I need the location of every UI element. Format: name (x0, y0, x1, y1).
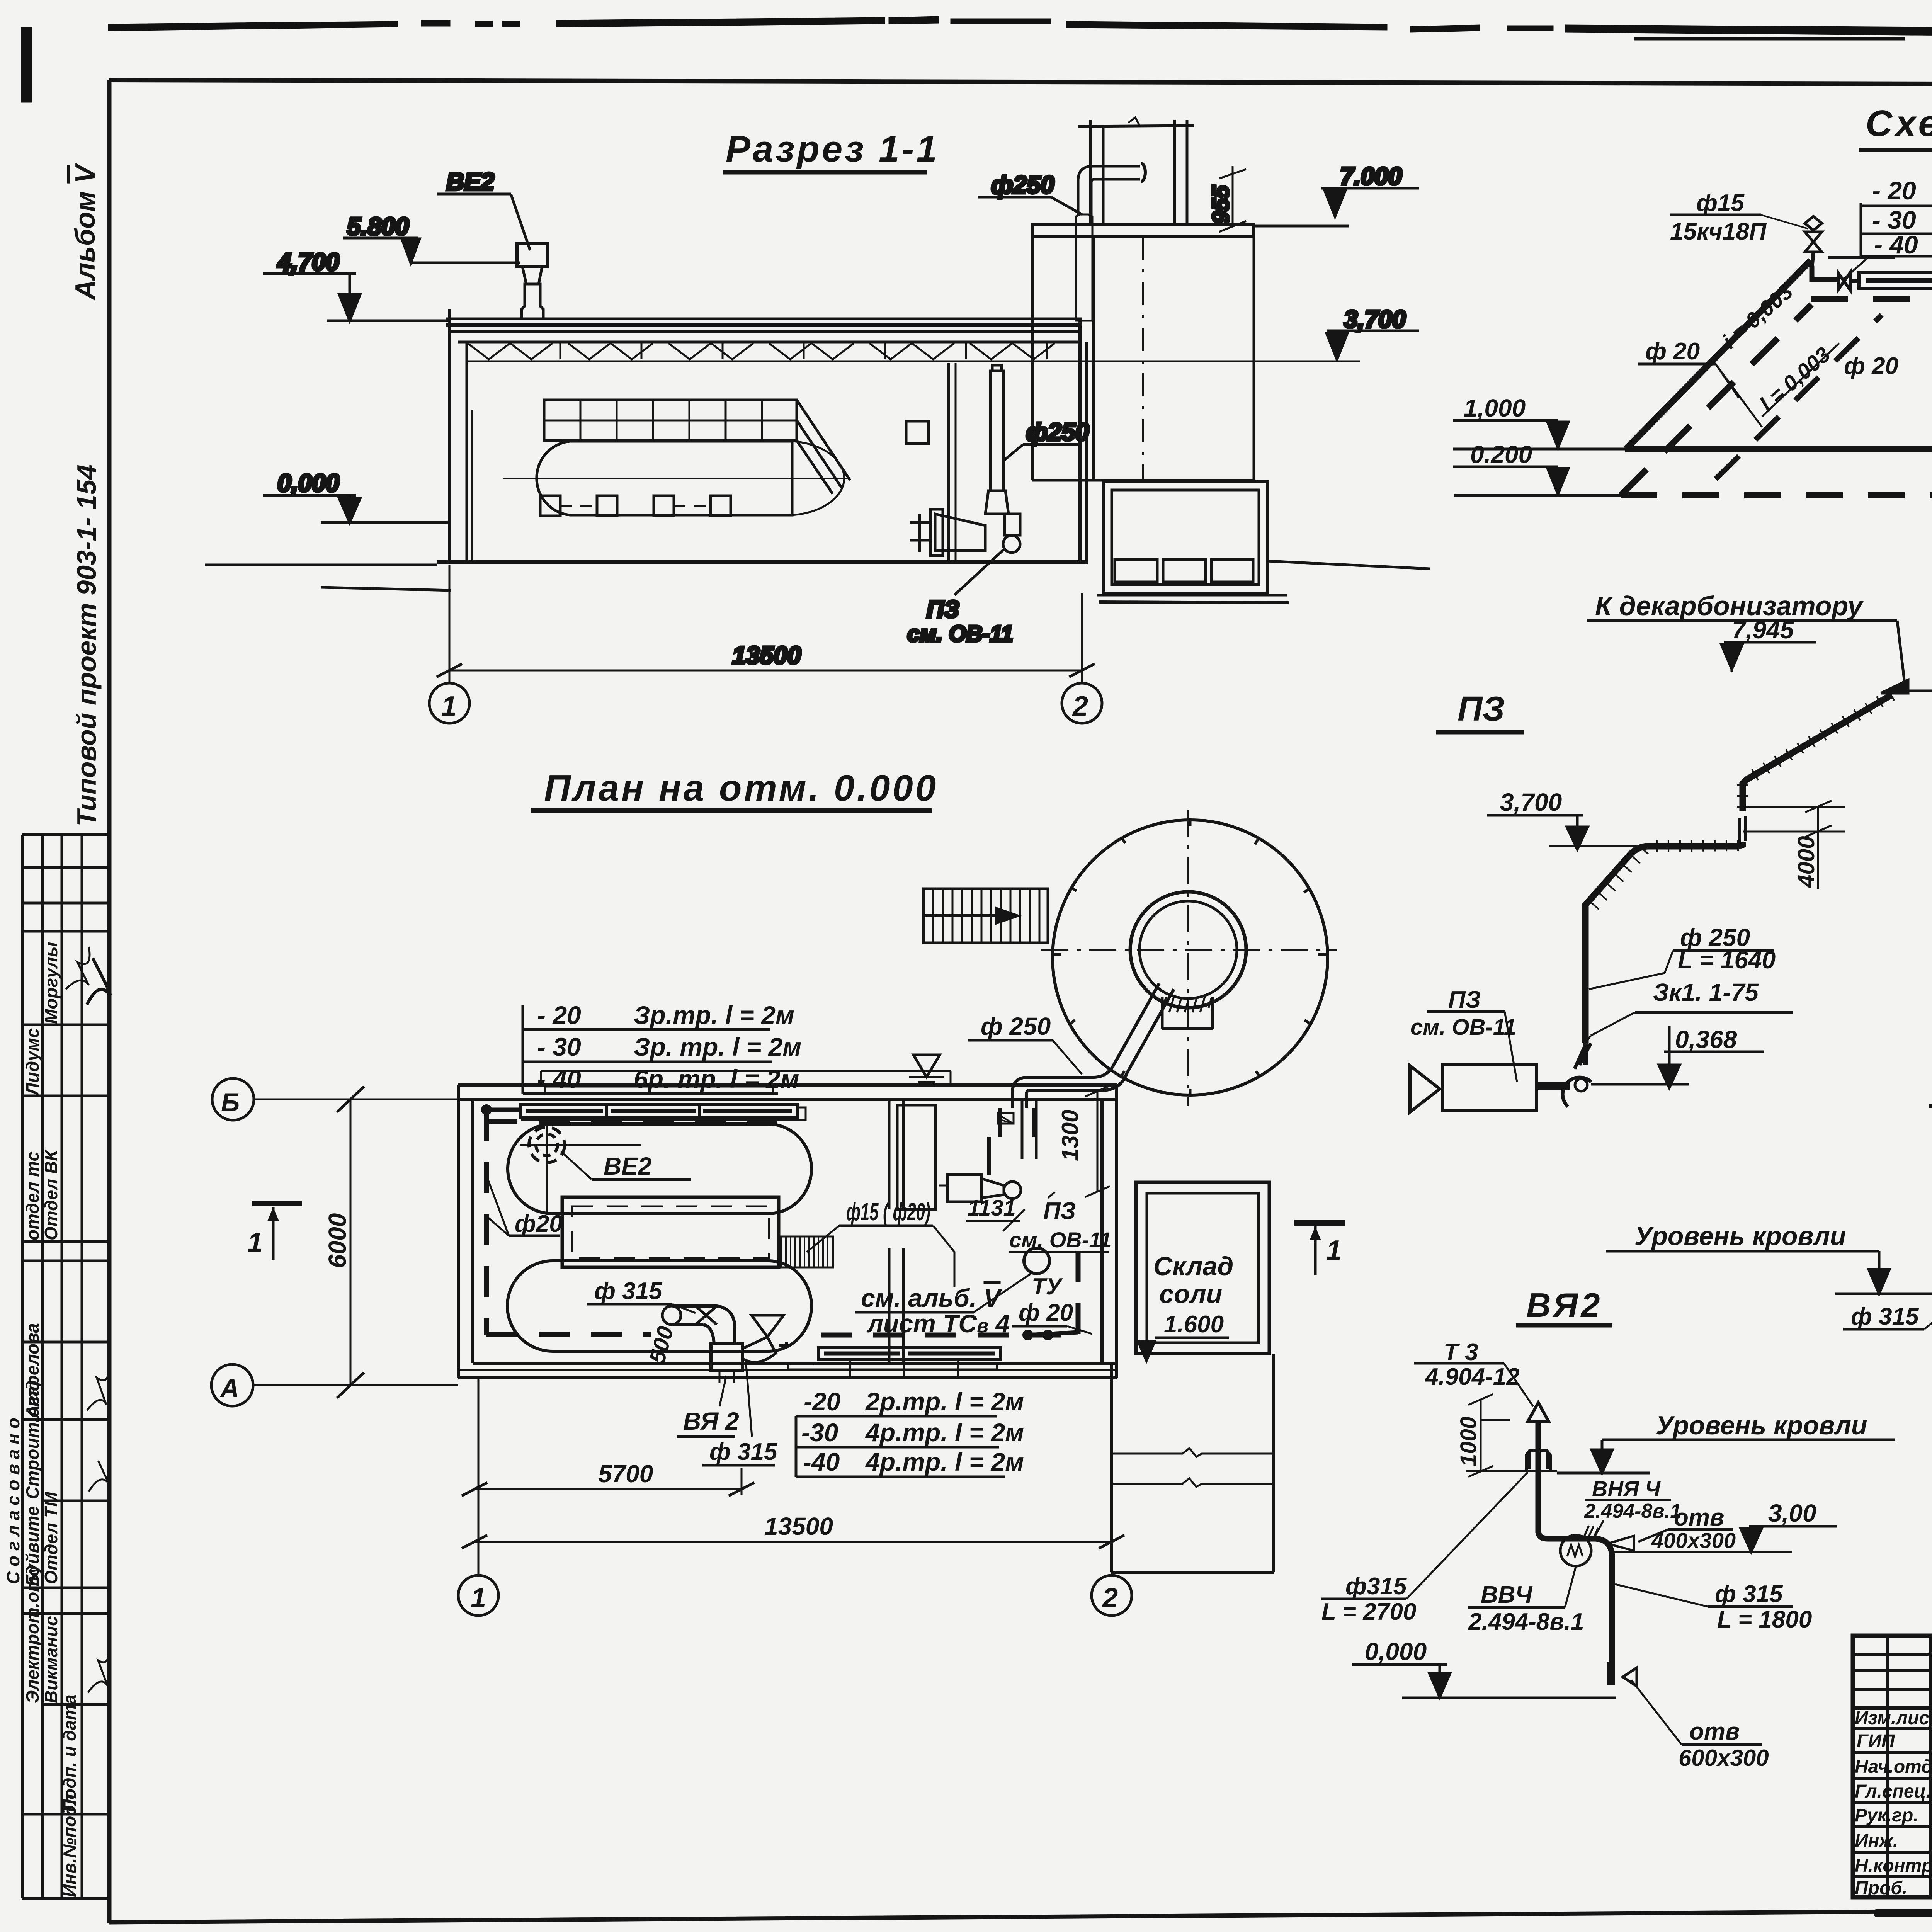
svg-text:15кч18П: 15кч18П (1670, 218, 1767, 245)
svg-text:0,000: 0,000 (1365, 1638, 1427, 1665)
svg-text:1,000: 1,000 (1464, 394, 1526, 422)
svg-text:Зр. тр. l = 2м: Зр. тр. l = 2м (634, 1032, 801, 1061)
svg-text:- 20: - 20 (537, 1001, 581, 1029)
svg-text:ГИП: ГИП (1857, 1731, 1895, 1752)
svg-text:5700: 5700 (598, 1460, 653, 1488)
svg-text:ВВЧ: ВВЧ (1481, 1582, 1533, 1608)
svg-text:Викманис: Викманис (41, 1616, 61, 1703)
svg-text:1300: 1300 (1057, 1110, 1083, 1161)
svg-text:ПЗ: ПЗ (927, 596, 959, 623)
svg-text:1: 1 (247, 1227, 263, 1258)
svg-text:L = 1800: L = 1800 (1717, 1606, 1812, 1633)
svg-text:ф250: ф250 (1026, 418, 1089, 446)
svg-text:Инв.№подл: Инв.№подл (60, 1794, 80, 1897)
svg-text:500: 500 (645, 1323, 679, 1366)
svg-text:отв: отв (1674, 1504, 1724, 1531)
svg-text:ф250: ф250 (991, 171, 1054, 199)
svg-text:см. ОВ-11: см. ОВ-11 (1410, 1015, 1516, 1040)
svg-text:Инж.: Инж. (1855, 1831, 1898, 1851)
svg-text:L = 1640: L = 1640 (1678, 946, 1776, 974)
svg-text:Рук.гр.: Рук.гр. (1855, 1805, 1918, 1826)
svg-text:L = 2700: L = 2700 (1321, 1599, 1416, 1625)
svg-text:соли: соли (1159, 1279, 1222, 1309)
svg-text:1: 1 (441, 691, 457, 722)
svg-text:отв: отв (1689, 1718, 1740, 1745)
svg-text:- 20: - 20 (1872, 176, 1916, 205)
svg-text:Н.контр: Н.контр (1855, 1855, 1932, 1876)
svg-text:Отдел ВК: Отдел ВК (41, 1149, 61, 1240)
svg-text:Электрот.отд: Электрот.отд (22, 1565, 43, 1703)
svg-text:отдел тс: отдел тс (22, 1151, 43, 1240)
svg-text:4р.тр. l = 2м: 4р.тр. l = 2м (865, 1447, 1024, 1476)
svg-text:ф 20: ф 20 (1019, 1299, 1073, 1326)
svg-text:ПЗ: ПЗ (1043, 1198, 1076, 1225)
svg-text:ф 20: ф 20 (1645, 338, 1700, 365)
svg-text:2р.тр. l = 2м: 2р.тр. l = 2м (865, 1387, 1024, 1416)
svg-text:6000: 6000 (323, 1213, 351, 1268)
svg-text:13500: 13500 (732, 641, 801, 669)
svg-text:0,000: 0,000 (277, 469, 339, 497)
svg-text:ПЗ: ПЗ (1458, 690, 1505, 728)
svg-text:см. ОВ-11: см. ОВ-11 (1009, 1228, 1111, 1252)
svg-text:1: 1 (471, 1583, 486, 1614)
svg-text:- 30: - 30 (1872, 206, 1916, 234)
svg-text:С о г л а с о в а н о: С о г л а с о в а н о (3, 1418, 23, 1584)
svg-text:ф 315: ф 315 (709, 1439, 778, 1465)
svg-text:Нач.отд: Нач.отд (1855, 1757, 1932, 1777)
svg-text:ТУ: ТУ (1032, 1274, 1063, 1299)
svg-text:4.904-12: 4.904-12 (1424, 1364, 1520, 1390)
svg-text:-20: -20 (804, 1387, 841, 1416)
svg-text:А: А (219, 1374, 239, 1403)
svg-text:7,945: 7,945 (1732, 616, 1794, 644)
svg-text:-30: -30 (801, 1418, 838, 1447)
svg-text:ф 315: ф 315 (1715, 1581, 1783, 1607)
svg-text:Схема отопления: Схема отопления (1866, 103, 1932, 144)
svg-text:ф315: ф315 (1345, 1573, 1407, 1600)
svg-text:3,00: 3,00 (1768, 1499, 1816, 1527)
svg-text:Зк1. 1-75: Зк1. 1-75 (1653, 978, 1759, 1006)
svg-text:1: 1 (1326, 1235, 1342, 1266)
svg-text:ф 250: ф 250 (981, 1012, 1051, 1040)
svg-text:6р. тр. l = 2м: 6р. тр. l = 2м (634, 1065, 799, 1093)
svg-text:Изм.лист: Изм.лист (1855, 1708, 1932, 1728)
svg-text:см. ОВ-11: см. ОВ-11 (907, 621, 1013, 646)
svg-text:ф 315: ф 315 (594, 1278, 663, 1304)
svg-text:Уровень кровли: Уровень кровли (1656, 1411, 1867, 1440)
svg-text:- 30: - 30 (537, 1032, 581, 1061)
svg-text:- 40: - 40 (537, 1065, 581, 1093)
svg-text:955: 955 (1208, 185, 1234, 224)
svg-text:ВЯ 2: ВЯ 2 (683, 1407, 739, 1435)
svg-text:ф 315: ф 315 (1851, 1303, 1919, 1330)
svg-text:13500: 13500 (764, 1512, 833, 1540)
svg-text:3,700: 3,700 (1500, 788, 1562, 816)
svg-text:ПЗ: ПЗ (1448, 986, 1481, 1013)
svg-text:Разрез 1-1: Разрез 1-1 (726, 128, 939, 170)
svg-text:Моргулы: Моргулы (41, 942, 61, 1024)
svg-text:i = 0,003: i = 0,003 (1718, 279, 1798, 353)
svg-text:4000: 4000 (1793, 836, 1819, 888)
svg-text:ф15: ф15 (1696, 190, 1745, 216)
svg-text:Альбом V: Альбом V (70, 163, 101, 301)
svg-text:Отдел ТМ: Отдел ТМ (41, 1491, 61, 1584)
svg-text:ф20: ф20 (515, 1211, 563, 1237)
svg-text:3,700: 3,700 (1344, 305, 1406, 333)
svg-text:0,368: 0,368 (1675, 1026, 1737, 1053)
svg-text:2.494-8в.1: 2.494-8в.1 (1584, 1500, 1681, 1522)
svg-text:Зр.тр. l = 2м: Зр.тр. l = 2м (634, 1001, 794, 1029)
svg-text:Лидумс: Лидумс (22, 1028, 43, 1096)
svg-text:Гл.спец.: Гл.спец. (1855, 1781, 1931, 1802)
svg-text:Б: Б (221, 1088, 240, 1117)
svg-text:Склад: Склад (1153, 1252, 1233, 1281)
svg-text:ВЕ2: ВЕ2 (446, 168, 495, 196)
svg-text:1.600: 1.600 (1164, 1311, 1224, 1338)
svg-text:К декарбонизатору: К декарбонизатору (1595, 591, 1864, 621)
svg-text:ВНЯ Ч: ВНЯ Ч (1592, 1476, 1661, 1501)
svg-text:Т 3: Т 3 (1444, 1339, 1478, 1366)
svg-text:Типовой проект 903-1- 154: Типовой проект 903-1- 154 (71, 464, 102, 827)
svg-text:ВЕ2: ВЕ2 (604, 1152, 652, 1180)
svg-text:4,700: 4,700 (277, 248, 339, 276)
svg-text:Проб.: Проб. (1855, 1878, 1907, 1898)
svg-text:2: 2 (1102, 1583, 1118, 1614)
svg-text:ф15 ( ф20): ф15 ( ф20) (846, 1198, 930, 1226)
svg-text:-40: -40 (803, 1447, 840, 1476)
svg-text:лист ТСв 4: лист ТСв 4 (866, 1309, 1010, 1338)
svg-text:Строит.отд: Строит.отд (22, 1380, 43, 1499)
svg-text:ВЯ2: ВЯ2 (1526, 1286, 1603, 1324)
svg-text:План на отм. 0.000: План на отм. 0.000 (544, 767, 938, 809)
svg-text:0.200: 0.200 (1470, 440, 1532, 468)
svg-text:2.494-8в.1: 2.494-8в.1 (1468, 1609, 1584, 1635)
svg-text:2: 2 (1072, 691, 1088, 722)
svg-text:7.000: 7.000 (1340, 162, 1402, 190)
svg-text:1000: 1000 (1456, 1417, 1481, 1466)
svg-text:4р.тр. l = 2м: 4р.тр. l = 2м (865, 1418, 1024, 1447)
svg-text:ф 20: ф 20 (1844, 353, 1898, 379)
svg-text:Уровень кровли: Уровень кровли (1634, 1221, 1846, 1251)
svg-text:600х300: 600х300 (1679, 1745, 1769, 1771)
svg-text:1131: 1131 (968, 1196, 1016, 1221)
svg-text:5.800: 5.800 (347, 213, 409, 240)
